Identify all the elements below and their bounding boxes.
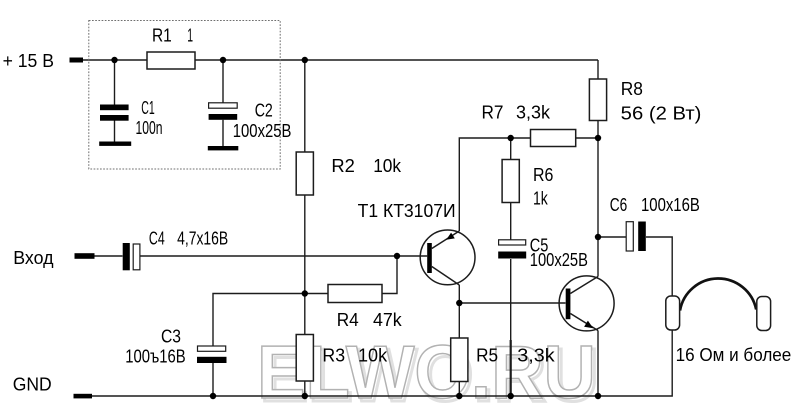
resistor R5 [451, 338, 468, 382]
capacitor C1 [99, 105, 131, 146]
transistor T1 PNP KT3107 [420, 230, 475, 285]
node R7/R8 [595, 135, 601, 141]
wire input to C4 [95, 255, 123, 257]
resistor R7 [531, 130, 576, 147]
node C2/+15 rail [220, 57, 226, 63]
svg-text:Т1 КТ3107И: Т1 КТ3107И [358, 201, 456, 221]
svg-text:100x16В: 100x16В [641, 195, 700, 215]
node C5/GND [508, 393, 514, 399]
node C3/GND [210, 393, 216, 399]
wire R6 top [510, 138, 512, 160]
svg-text:100ъ16В: 100ъ16В [125, 346, 186, 366]
resistor R8 [589, 79, 606, 121]
svg-text:R4: R4 [337, 310, 359, 330]
svg-text:56 (2 Вт): 56 (2 Вт) [621, 103, 702, 123]
svg-text:1: 1 [187, 25, 193, 45]
node C6 tap [595, 234, 601, 240]
wire C4 to T1 base [140, 255, 427, 257]
svg-text:С3: С3 [161, 326, 181, 346]
wire R2 top [304, 60, 306, 152]
node base/R4 [394, 253, 400, 259]
wire C5 to GND lower segment [510, 340, 512, 396]
node R3/GND [302, 393, 308, 399]
svg-text:10k: 10k [358, 346, 388, 366]
wire GND rail [92, 330, 672, 396]
svg-text:R6: R6 [533, 165, 553, 185]
svg-text:16 Ом и более: 16 Ом и более [676, 345, 792, 365]
wire C6 node to C6 left plate [598, 236, 626, 238]
wire T1 emitter up and over to R7 node [459, 138, 530, 231]
wire C1 top [114, 60, 116, 105]
watermark ELWO.RU [257, 330, 599, 417]
wire R3 bottom to GND [304, 381, 306, 396]
svg-text:10k: 10k [373, 156, 402, 176]
node R5/GND [456, 393, 462, 399]
capacitor C2 [208, 103, 239, 151]
wire bias node to C3 [213, 294, 305, 347]
resistor R4 [328, 285, 382, 303]
terminal +15V [70, 58, 84, 63]
wire C1 bottom [114, 121, 116, 142]
svg-text:R3: R3 [322, 346, 345, 366]
node emitter/R7/R6 [508, 135, 514, 141]
svg-text:3,3k: 3,3k [516, 103, 551, 123]
node T2 emitter/GND [595, 393, 601, 399]
wire C2 top [222, 60, 224, 103]
wire T1 collector down through R5 node [458, 285, 460, 338]
capacitor C3 [197, 346, 227, 363]
svg-text:100x25В: 100x25В [530, 250, 588, 270]
wire base node down to R4 [382, 256, 397, 294]
svg-text:C1: C1 [141, 98, 155, 118]
svg-text:100x25В: 100x25В [233, 121, 292, 141]
svg-text:1k: 1k [533, 189, 549, 209]
dashed filter box [89, 21, 280, 170]
svg-text:Вход: Вход [13, 248, 54, 268]
svg-text:3,3k: 3,3k [517, 345, 555, 365]
resistor R3 [296, 335, 313, 382]
wire C5 bottom to GND [510, 259, 512, 340]
svg-text:100n: 100n [136, 118, 163, 138]
svg-text:47k: 47k [373, 310, 403, 330]
terminal GND [74, 394, 93, 399]
wire +15V rail [83, 59, 598, 61]
capacitor C5 [498, 240, 526, 259]
svg-text:C2: C2 [255, 100, 273, 120]
resistor R6 [502, 160, 519, 203]
svg-text:R5: R5 [476, 345, 498, 365]
wire R4 left to bias node [305, 293, 328, 295]
transistor T2 NPN [559, 276, 614, 331]
capacitor C6 [626, 222, 646, 252]
wire T1 collector node to T2 base [459, 302, 565, 304]
svg-text:С6: С6 [610, 195, 628, 215]
svg-text:R7: R7 [482, 103, 504, 123]
wire R2 bottom to bias node [304, 195, 306, 294]
wire R8 bottom to node [597, 121, 599, 139]
wire T2 emitter down to GND [597, 331, 599, 397]
node bias divider [302, 290, 308, 296]
node R2/+15 rail [302, 57, 308, 63]
headphones [666, 279, 771, 331]
svg-text:GND: GND [13, 375, 52, 395]
wire R7 right to R8 node [576, 137, 598, 139]
wire C2 bottom [222, 120, 224, 146]
svg-text:R2: R2 [331, 156, 355, 176]
wire R6 bottom to C5 [510, 203, 512, 240]
resistor R1 [147, 52, 195, 69]
wire R8 top drop [597, 60, 599, 79]
wire C3 bottom to GND [212, 363, 214, 396]
capacitor C4 [123, 243, 140, 270]
svg-text:C4: C4 [149, 229, 165, 249]
resistor R2 [296, 152, 313, 195]
svg-text:4,7x16В: 4,7x16В [177, 229, 228, 249]
node T1 collector / T2 base [456, 300, 462, 306]
wire R8 node down to T2 collector [597, 138, 599, 277]
terminal input [75, 253, 95, 259]
svg-text:R8: R8 [621, 79, 643, 99]
svg-text:+ 15 В: + 15 В [3, 51, 54, 71]
wire bias node to R3 top [304, 294, 306, 335]
node C1/+15 rail [111, 57, 117, 63]
wire C6 right to headphone [646, 237, 672, 296]
svg-text:R1: R1 [152, 25, 172, 45]
wire R5 bottom to GND [458, 382, 460, 397]
